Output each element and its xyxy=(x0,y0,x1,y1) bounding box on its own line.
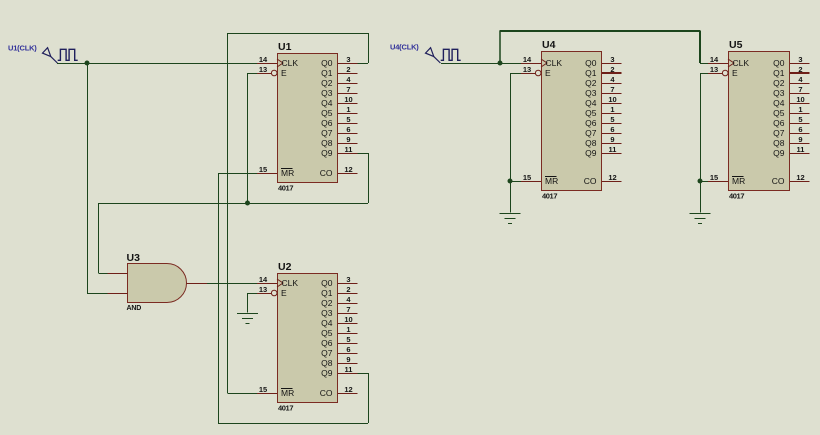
U5 pin 3 Q0 output xyxy=(773,55,809,68)
svg-text:Q3: Q3 xyxy=(321,308,333,318)
svg-text:Q2: Q2 xyxy=(321,298,333,308)
svg-text:E: E xyxy=(281,288,287,298)
svg-text:Q2: Q2 xyxy=(585,78,597,88)
svg-text:6: 6 xyxy=(346,125,350,134)
svg-text:1: 1 xyxy=(610,105,614,114)
refdes label U1 xyxy=(278,41,292,53)
wire horizontal run y=203 from AND side to U1.Q9 corner xyxy=(99,203,369,205)
U1 pin 4 Q2 output xyxy=(321,75,357,88)
svg-text:1: 1 xyxy=(346,105,350,114)
U1 pin 14 CLK (clock input with edge-triangle) xyxy=(257,55,298,68)
svg-text:Q1: Q1 xyxy=(773,68,785,78)
svg-text:3: 3 xyxy=(346,55,350,64)
svg-text:13: 13 xyxy=(523,65,531,74)
U2 pin 10 Q4 output xyxy=(321,315,357,328)
ground symbol at U5.MR xyxy=(690,181,711,224)
junction U1.E vertical meets y=203 run xyxy=(245,201,250,206)
svg-text:Q5: Q5 xyxy=(773,108,785,118)
svg-text:7: 7 xyxy=(346,305,350,314)
svg-text:Q0: Q0 xyxy=(321,58,333,68)
svg-text:Q1: Q1 xyxy=(321,288,333,298)
svg-text:AND: AND xyxy=(127,305,142,312)
svg-text:14: 14 xyxy=(523,55,532,64)
svg-text:U1(CLK): U1(CLK) xyxy=(8,44,37,53)
svg-text:Q8: Q8 xyxy=(773,138,785,148)
svg-text:U5: U5 xyxy=(729,39,743,51)
svg-text:4017: 4017 xyxy=(278,184,293,193)
U3 output pin stub xyxy=(187,283,208,285)
wire bottom run y=423 to U2.Q9 xyxy=(218,373,369,424)
U4 pin 12 CO (carry out) xyxy=(584,173,622,186)
AND gate U3 body xyxy=(128,264,187,303)
svg-text:Q9: Q9 xyxy=(321,148,333,158)
svg-text:Q7: Q7 xyxy=(585,128,597,138)
svg-text:U4: U4 xyxy=(542,39,556,51)
U3 AND type label xyxy=(127,305,142,312)
U4 pin 1 Q5 output xyxy=(585,105,621,118)
U5 pin 10 Q4 output xyxy=(773,95,809,108)
svg-text:Q7: Q7 xyxy=(773,128,785,138)
U4 pin 6 Q7 output xyxy=(585,125,621,138)
svg-text:12: 12 xyxy=(796,173,804,182)
U4 pin 13 E (enable, inverted bubble) xyxy=(521,65,551,78)
value label 4017 of U5 xyxy=(729,192,744,201)
svg-text:Q6: Q6 xyxy=(773,118,785,128)
U1 pin 13 E (enable, inverted bubble) xyxy=(257,65,287,78)
svg-text:12: 12 xyxy=(344,385,352,394)
U2 pin 3 Q0 output xyxy=(321,275,357,288)
svg-text:11: 11 xyxy=(797,145,805,154)
U4 pin 7 Q3 output xyxy=(585,85,621,98)
ground symbol at U4.MR xyxy=(500,181,521,224)
U4 pin 9 Q8 output xyxy=(585,135,621,148)
U5 pin 2 Q1 output xyxy=(773,65,809,78)
svg-text:2: 2 xyxy=(346,65,350,74)
value label 4017 of U4 xyxy=(542,192,557,201)
svg-text:10: 10 xyxy=(796,95,804,104)
svg-text:Q3: Q3 xyxy=(773,88,785,98)
svg-text:CLK: CLK xyxy=(546,58,563,68)
U3 refdes label xyxy=(127,252,141,264)
wire U1.E to vertical (net U1.Q9/E) xyxy=(248,73,272,203)
svg-text:3: 3 xyxy=(610,55,614,64)
svg-text:15: 15 xyxy=(523,173,531,182)
wire left vertical down to U2.MR xyxy=(228,33,258,394)
U5 pin 12 CO (carry out) xyxy=(772,173,810,186)
refdes label U5 xyxy=(729,39,743,51)
U5 pin 13 E (enable, inverted bubble) xyxy=(708,65,738,78)
refdes label U4 xyxy=(542,39,556,51)
ground symbol at U2.E xyxy=(237,293,258,324)
svg-text:5: 5 xyxy=(346,335,350,344)
value label 4017 of U1 xyxy=(278,184,293,193)
svg-text:Q9: Q9 xyxy=(773,148,785,158)
wire U1.MR left and down xyxy=(218,173,258,423)
svg-text:14: 14 xyxy=(259,275,268,284)
U2 pin 13 E (enable, inverted bubble) xyxy=(257,285,287,298)
U2 pin 7 Q3 output xyxy=(321,305,357,318)
value label 4017 of U2 xyxy=(278,404,293,413)
svg-text:U2: U2 xyxy=(278,261,292,273)
svg-text:Q8: Q8 xyxy=(585,138,597,148)
U4 pin 4 Q2 output xyxy=(585,75,621,88)
wire clock2 to U4.CLK xyxy=(441,63,521,65)
svg-text:15: 15 xyxy=(259,165,267,174)
junction at U4.MR xyxy=(508,179,513,184)
U2 pin 2 Q1 output xyxy=(321,285,357,298)
wire clock1 to U1.CLK (net CLK1) xyxy=(57,63,258,65)
IC U5 4017 decade counter body xyxy=(729,52,790,191)
U1 pin 7 Q3 output xyxy=(321,85,357,98)
svg-text:13: 13 xyxy=(259,285,267,294)
svg-text:Q8: Q8 xyxy=(321,138,333,148)
svg-text:MR: MR xyxy=(732,176,745,186)
svg-text:7: 7 xyxy=(610,85,614,94)
svg-text:10: 10 xyxy=(344,95,352,104)
svg-text:1: 1 xyxy=(798,105,802,114)
wire down-left to AND gate input A xyxy=(99,203,109,274)
svg-text:CO: CO xyxy=(320,168,333,178)
U1 pin 3 Q0 output xyxy=(321,55,357,68)
U2 pin 5 Q6 output xyxy=(321,335,357,348)
svg-text:Q0: Q0 xyxy=(321,278,333,288)
U2 pin 14 CLK (clock input with edge-triangle) xyxy=(257,275,298,288)
U2 pin 9 Q8 output xyxy=(321,355,357,368)
clock generator symbol 2 (arrow + square wave) xyxy=(426,48,461,63)
svg-text:E: E xyxy=(732,68,738,78)
svg-text:Q8: Q8 xyxy=(321,358,333,368)
svg-text:12: 12 xyxy=(344,165,352,174)
svg-text:MR: MR xyxy=(281,168,294,178)
svg-text:Q9: Q9 xyxy=(321,368,333,378)
svg-text:2: 2 xyxy=(798,65,802,74)
U2 pin 12 CO (carry out) xyxy=(320,385,358,398)
svg-text:CO: CO xyxy=(584,176,597,186)
svg-text:2: 2 xyxy=(610,65,614,74)
svg-text:Q7: Q7 xyxy=(321,348,333,358)
svg-text:Q1: Q1 xyxy=(321,68,333,78)
U4 pin 14 CLK (clock input with edge-triangle) xyxy=(521,55,562,68)
U5 pin 14 CLK (clock input with edge-triangle) xyxy=(708,55,749,68)
U5 pin 7 Q3 output xyxy=(773,85,809,98)
clock generator label U1(CLK) xyxy=(8,44,37,53)
U1 pin 5 Q6 output xyxy=(321,115,357,128)
svg-text:14: 14 xyxy=(710,55,719,64)
U1 pin 2 Q1 output xyxy=(321,65,357,78)
svg-text:3: 3 xyxy=(798,55,802,64)
U5 pin 4 Q2 output xyxy=(773,75,809,88)
U5 pin 15 MR (master reset, overbar) xyxy=(708,173,745,186)
svg-text:7: 7 xyxy=(346,85,350,94)
wire U1.Q0 up over top to left vertical xyxy=(228,33,369,64)
clock generator symbol 1 (arrow + square wave) xyxy=(43,48,78,63)
svg-text:U1: U1 xyxy=(278,41,292,53)
svg-text:13: 13 xyxy=(259,65,267,74)
IC U4 4017 decade counter body xyxy=(542,52,602,191)
svg-text:12: 12 xyxy=(608,173,616,182)
svg-text:11: 11 xyxy=(345,145,353,154)
svg-text:MR: MR xyxy=(281,388,294,398)
svg-text:13: 13 xyxy=(710,65,718,74)
wire U2.E to ground xyxy=(248,293,272,295)
U4 pin 11 Q9 output xyxy=(585,145,621,158)
U1 pin 9 Q8 output xyxy=(321,135,357,148)
svg-text:Q6: Q6 xyxy=(321,118,333,128)
U5 pin 9 Q8 output xyxy=(773,135,809,148)
junction at U5.MR xyxy=(698,179,703,184)
svg-text:10: 10 xyxy=(344,315,352,324)
U1 pin 11 Q9 output xyxy=(321,145,357,158)
svg-text:6: 6 xyxy=(346,345,350,354)
wire U5.E down to U5.MR xyxy=(700,73,722,182)
refdes label U2 xyxy=(278,261,292,273)
svg-text:Q4: Q4 xyxy=(321,318,333,328)
svg-text:Q3: Q3 xyxy=(321,88,333,98)
svg-text:15: 15 xyxy=(259,385,267,394)
U5 pin 6 Q7 output xyxy=(773,125,809,138)
svg-text:Q4: Q4 xyxy=(321,98,333,108)
svg-text:10: 10 xyxy=(608,95,616,104)
svg-text:Q0: Q0 xyxy=(773,58,785,68)
U2 pin 6 Q7 output xyxy=(321,345,357,358)
svg-text:9: 9 xyxy=(610,135,614,144)
IC U2 4017 decade counter body xyxy=(278,274,338,403)
svg-text:CLK: CLK xyxy=(282,278,299,288)
svg-text:Q4: Q4 xyxy=(773,98,785,108)
U5 pin 11 Q9 output xyxy=(773,145,809,158)
U1 pin 15 MR (master reset, overbar) xyxy=(257,165,294,178)
U2 pin 4 Q2 output xyxy=(321,295,357,308)
svg-text:Q1: Q1 xyxy=(585,68,597,78)
svg-text:U3: U3 xyxy=(127,252,141,264)
U1 pin 10 Q4 output xyxy=(321,95,357,108)
svg-text:CLK: CLK xyxy=(282,58,299,68)
svg-text:E: E xyxy=(281,68,287,78)
svg-text:Q2: Q2 xyxy=(321,78,333,88)
svg-text:11: 11 xyxy=(609,145,617,154)
svg-text:Q5: Q5 xyxy=(585,108,597,118)
svg-text:4017: 4017 xyxy=(729,192,744,201)
junction at clock1 wire xyxy=(85,61,90,66)
U3 input pin B stub xyxy=(108,293,128,295)
U1 pin 12 CO (carry out) xyxy=(320,165,358,178)
svg-text:4017: 4017 xyxy=(278,404,293,413)
IC U1 4017 decade counter body xyxy=(278,54,338,183)
svg-text:CO: CO xyxy=(772,176,785,186)
svg-text:2: 2 xyxy=(346,285,350,294)
U2 pin 1 Q5 output xyxy=(321,325,357,338)
svg-text:Q9: Q9 xyxy=(585,148,597,158)
svg-text:CLK: CLK xyxy=(733,58,750,68)
svg-text:15: 15 xyxy=(710,173,718,182)
U2 pin 11 Q9 output xyxy=(321,365,357,378)
U2 pin 15 MR (master reset, overbar) xyxy=(257,385,294,398)
U1 pin 1 Q5 output xyxy=(321,105,357,118)
svg-text:Q3: Q3 xyxy=(585,88,597,98)
wire AND gate output to U2.CLK xyxy=(207,283,258,285)
svg-text:14: 14 xyxy=(259,55,268,64)
svg-text:Q2: Q2 xyxy=(773,78,785,88)
svg-text:9: 9 xyxy=(346,355,350,364)
svg-text:9: 9 xyxy=(798,135,802,144)
U4 pin 3 Q0 output xyxy=(585,55,621,68)
svg-text:6: 6 xyxy=(798,125,802,134)
U5 pin 1 Q5 output xyxy=(773,105,809,118)
U4 pin 5 Q6 output xyxy=(585,115,621,128)
junction at clock2 wire xyxy=(498,61,503,66)
svg-text:3: 3 xyxy=(346,275,350,284)
svg-text:Q7: Q7 xyxy=(321,128,333,138)
svg-text:5: 5 xyxy=(610,115,614,124)
U1 pin 6 Q7 output xyxy=(321,125,357,138)
svg-text:7: 7 xyxy=(798,85,802,94)
svg-text:Q5: Q5 xyxy=(321,108,333,118)
U4 pin 15 MR (master reset, overbar) xyxy=(521,173,558,186)
svg-text:Q6: Q6 xyxy=(585,118,597,128)
svg-text:E: E xyxy=(545,68,551,78)
svg-text:Q6: Q6 xyxy=(321,338,333,348)
svg-text:4017: 4017 xyxy=(542,192,557,201)
svg-text:MR: MR xyxy=(545,176,558,186)
U4 pin 10 Q4 output xyxy=(585,95,621,108)
svg-text:Q4: Q4 xyxy=(585,98,597,108)
U4 pin 2 Q1 output xyxy=(585,65,621,78)
svg-text:CO: CO xyxy=(320,388,333,398)
svg-text:U4(CLK): U4(CLK) xyxy=(390,43,419,52)
svg-text:Q0: Q0 xyxy=(585,58,597,68)
wire U1.Q9 stub to corner and down xyxy=(358,153,369,203)
svg-text:Q5: Q5 xyxy=(321,328,333,338)
U5 pin 5 Q6 output xyxy=(773,115,809,128)
svg-text:1: 1 xyxy=(346,325,350,334)
wire U4.E down to U4.MR xyxy=(510,73,535,182)
svg-text:11: 11 xyxy=(345,365,353,374)
wire junction drop to AND gate input B xyxy=(87,63,108,294)
wire thick top run U4.CLK to U5.CLK xyxy=(500,31,709,64)
svg-text:6: 6 xyxy=(610,125,614,134)
svg-text:5: 5 xyxy=(346,115,350,124)
svg-text:9: 9 xyxy=(346,135,350,144)
svg-text:5: 5 xyxy=(798,115,802,124)
clock generator label U4(CLK) xyxy=(390,43,419,52)
U3 input pin A stub xyxy=(108,273,128,275)
